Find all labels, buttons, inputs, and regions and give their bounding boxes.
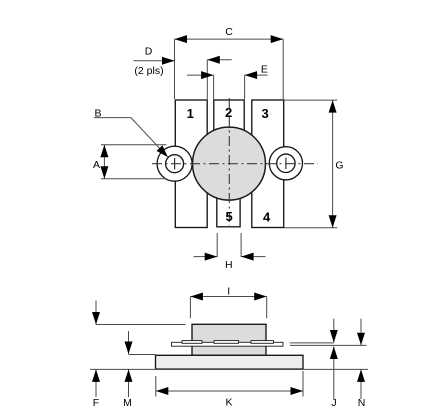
lead bar center — [214, 341, 239, 344]
A extension line top — [101, 144, 167, 146]
svg-text:I: I — [227, 286, 230, 298]
svg-text:N: N — [358, 397, 366, 409]
F lower arrow — [95, 369, 97, 397]
left mounting hole — [166, 155, 184, 173]
lead top extension right — [290, 342, 334, 344]
side view flange — [156, 355, 304, 369]
svg-text:E: E — [261, 63, 268, 75]
svg-text:M: M — [123, 397, 132, 409]
cap circle outline overlay — [193, 127, 266, 200]
svg-text:4: 4 — [263, 210, 271, 225]
F upper arrow — [95, 301, 97, 325]
vertical center line — [228, 98, 230, 229]
D leader arrow — [134, 60, 175, 62]
B leader underline — [94, 117, 131, 119]
flange bottom extension right — [303, 368, 368, 370]
dimension I line — [190, 296, 266, 298]
left flange tab — [157, 146, 192, 181]
svg-text:K: K — [225, 397, 232, 409]
svg-text:5: 5 — [225, 209, 232, 224]
flange bottom extension left — [90, 368, 156, 370]
lead bottom extension right — [290, 344, 367, 346]
I extension line right — [266, 297, 268, 319]
svg-text:(2 pls): (2 pls) — [134, 65, 163, 77]
svg-text:A: A — [93, 159, 100, 171]
svg-text:H: H — [225, 259, 233, 271]
lead 5 — [217, 157, 240, 227]
C extension line right — [282, 39, 284, 99]
H arrow right — [241, 256, 265, 258]
dimension A line — [103, 145, 105, 179]
dimension E arrow — [245, 74, 268, 76]
G extension line top — [284, 99, 337, 101]
lead 1 — [175, 100, 207, 228]
flange top pointer line — [129, 354, 156, 356]
A extension line bottom — [101, 178, 167, 180]
lead 2 — [214, 100, 244, 170]
svg-text:3: 3 — [261, 106, 268, 121]
C extension line left — [174, 39, 176, 99]
N upper arrow — [360, 319, 362, 346]
left hole center mark — [174, 158, 176, 169]
svg-text:1: 1 — [187, 106, 194, 121]
H arrow left — [194, 256, 218, 258]
J upper arrow — [333, 319, 335, 343]
svg-text:F: F — [93, 397, 99, 409]
right hole center mark — [285, 158, 287, 169]
cap circle — [193, 127, 266, 200]
gap arrow upper (lead1 right edge) — [207, 59, 231, 61]
svg-text:G: G — [335, 160, 343, 172]
K extension line right — [302, 371, 304, 397]
M upper arrow — [128, 331, 130, 354]
dimension K line — [156, 390, 303, 392]
right flange tab — [269, 147, 302, 180]
svg-text:2: 2 — [225, 105, 232, 120]
dimension G line — [332, 100, 334, 228]
right mounting hole — [277, 154, 295, 172]
N lower arrow — [360, 369, 362, 399]
gap arrow lower (lead2 left edge) — [187, 74, 214, 76]
horizontal center line — [152, 163, 318, 165]
G extension line bottom — [284, 227, 337, 229]
lead 3/4 — [252, 100, 284, 228]
lead bar left — [182, 341, 202, 344]
lead bar right — [251, 341, 274, 344]
H extension line left — [216, 233, 218, 257]
svg-text:D: D — [145, 45, 153, 57]
side view cap — [192, 324, 266, 355]
dimension C line — [175, 38, 284, 40]
M lower arrow — [128, 369, 130, 397]
side view lead strip — [172, 342, 284, 346]
H extension line right — [240, 233, 242, 257]
cap top extension left — [96, 324, 186, 326]
I extension line left — [189, 297, 191, 319]
J lower arrow — [333, 347, 335, 400]
B leader diagonal — [131, 118, 161, 150]
K extension line left — [155, 376, 157, 397]
svg-text:C: C — [225, 26, 233, 38]
svg-text:J: J — [331, 397, 336, 409]
